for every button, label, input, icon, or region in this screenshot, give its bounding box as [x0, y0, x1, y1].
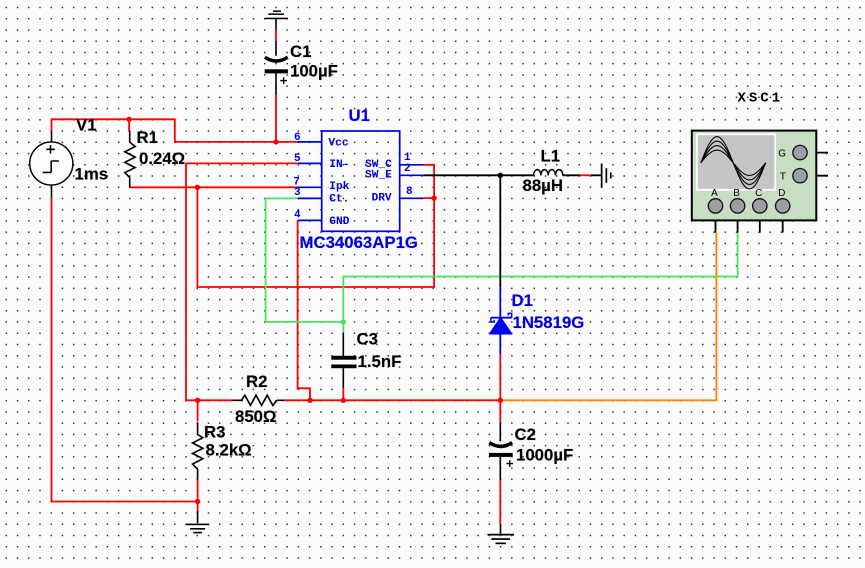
svg-text:GND: GND	[329, 216, 349, 228]
svg-text:850Ω: 850Ω	[235, 407, 276, 426]
svg-text:8.2kΩ: 8.2kΩ	[206, 441, 252, 460]
svg-text:C3: C3	[357, 330, 378, 349]
svg-text:88µH: 88µH	[523, 176, 563, 195]
svg-text:DRV: DRV	[372, 193, 392, 205]
svg-text:1.5nF: 1.5nF	[358, 352, 402, 371]
svg-text:4: 4	[294, 210, 301, 222]
svg-text:U1: U1	[349, 106, 370, 125]
svg-text:8: 8	[406, 186, 413, 198]
svg-text:1000µF: 1000µF	[516, 446, 573, 465]
svg-text:D1: D1	[512, 291, 533, 310]
svg-text:SW_E: SW_E	[365, 170, 392, 182]
svg-text:T: T	[780, 171, 786, 182]
svg-text:Ct.: Ct.	[329, 194, 349, 206]
svg-text:C2: C2	[515, 425, 536, 444]
svg-text:C: C	[755, 188, 762, 199]
svg-text:5: 5	[294, 153, 301, 165]
svg-text:IN-: IN-	[329, 159, 349, 171]
svg-text:0.24Ω: 0.24Ω	[139, 149, 185, 168]
svg-text:6: 6	[294, 132, 301, 144]
svg-text:R3: R3	[204, 422, 225, 441]
svg-text:L1: L1	[541, 146, 561, 165]
svg-text:G: G	[778, 148, 786, 159]
svg-text:R1: R1	[137, 128, 158, 147]
svg-text:1N5819G: 1N5819G	[513, 313, 585, 332]
svg-text:MC34063AP1G: MC34063AP1G	[300, 233, 418, 252]
svg-text:2: 2	[404, 163, 411, 175]
svg-text:D: D	[778, 188, 785, 199]
svg-text:C1: C1	[290, 42, 311, 61]
svg-text:1ms: 1ms	[75, 164, 109, 183]
svg-text:B: B	[733, 188, 740, 199]
svg-text:Vcc: Vcc	[328, 137, 348, 149]
svg-text:A: A	[711, 188, 718, 199]
svg-text:V1: V1	[76, 116, 97, 135]
svg-text:Ipk: Ipk	[329, 181, 349, 193]
svg-text:100µF: 100µF	[290, 62, 338, 81]
svg-text:R2: R2	[246, 372, 267, 391]
svg-text:XSC1: XSC1	[738, 91, 784, 107]
svg-text:3: 3	[294, 187, 301, 199]
